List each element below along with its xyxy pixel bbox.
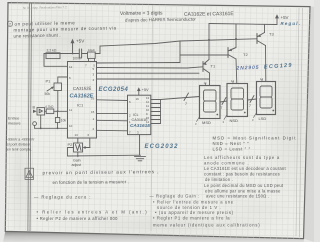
- svg-text:en tenir compte.: en tenir compte.: [7, 147, 32, 151]
- input terminal B: [33, 110, 37, 113]
- wire to pin12: [44, 54, 68, 67]
- bus slash 7: [184, 93, 189, 101]
- wire U1 pin15 to U2 pin2: [97, 113, 128, 115]
- svg-text:ICL: ICL: [133, 113, 139, 117]
- svg-text:CA3162E: CA3162E: [73, 86, 92, 91]
- svg-text:50k: 50k: [45, 92, 51, 96]
- wire chip top pin a: [88, 58, 90, 61]
- svg-text:-99mV a +999mV: -99mV a +999mV: [7, 137, 35, 141]
- ground symbol: [135, 157, 146, 161]
- wire MSD to NSD: [220, 101, 227, 102]
- wire P2 bottom: [77, 152, 79, 156]
- wire +5V collector rail (top): [209, 24, 277, 25]
- wire U1 pin2 to U2 pin7: [97, 129, 128, 132]
- wire NSD to LSD: [248, 99, 257, 100]
- wire P1 bottom to input node: [57, 91, 59, 112]
- potentiometer P2 gain: [74, 143, 91, 152]
- wire T3 collector to LSD: [265, 46, 267, 82]
- svg-text:+5V: +5V: [281, 15, 289, 20]
- svg-text:• Relier les entrees A et M (a: • Relier les entrees A et M (ant.): [37, 210, 149, 215]
- wire R3 top: [57, 111, 59, 117]
- svg-text:• Regler P2 de maniere a affic: • Regler P2 de maniere a afficher 000: [37, 216, 119, 221]
- svg-text:7: 7: [221, 106, 223, 110]
- svg-text:MSD = Most Significant Digit: MSD = Most Significant Digit: [213, 136, 297, 141]
- wire input to pin11: [45, 110, 47, 112]
- wire pin5 to T1 base: [97, 67, 203, 68]
- svg-text:Le point decimal du MSD ou LSD: Le point decimal du MSD ou LSD peut: [204, 183, 284, 188]
- display LSD pin marks: [254, 80, 263, 118]
- svg-text:4,7kΩ: 4,7kΩ: [45, 105, 54, 109]
- svg-text:— Reglage du Gain :: — Reglage du Gain :: [150, 194, 201, 199]
- node input junction: [57, 110, 59, 112]
- wire pin13 to P2: [77, 138, 79, 143]
- svg-text:2N2905: 2N2905: [235, 65, 259, 72]
- display NSD: [227, 84, 248, 117]
- svg-text:ECG2032: ECG2032: [145, 144, 179, 150]
- wire U1 pin1 to U2 pin1: [97, 119, 128, 122]
- wire chip corner to riser: [97, 62, 180, 65]
- svg-text:d'apres doc HARRIS Semiconduct: d'apres doc HARRIS Semiconductor: [125, 17, 196, 23]
- potentiometer P1 zero: [47, 83, 62, 91]
- svg-text:Entree: Entree: [8, 117, 19, 121]
- wire T1 collector to MSD: [209, 73, 211, 86]
- svg-text:MSD: MSD: [202, 120, 211, 125]
- wire chip top pin b: [94, 58, 96, 61]
- svg-text:2: 2: [9, 22, 11, 26]
- svg-text:2,2 kΩ: 2,2 kΩ: [47, 49, 57, 53]
- svg-text:LSD: LSD: [259, 116, 267, 121]
- wire rail riser: [179, 41, 181, 63]
- svg-text:10µF: 10µF: [88, 48, 95, 52]
- wire U1 pin16 to U2 pin6: [97, 99, 128, 102]
- wire T2 base: [180, 54, 228, 56]
- wire T2 collector to NSD: [235, 59, 238, 84]
- resistor R2 input: [46, 109, 54, 114]
- display LSD: [257, 82, 276, 115]
- power +5V arrow (U2 pin16): [137, 87, 141, 95]
- svg-text:P1: P1: [46, 79, 52, 84]
- svg-text:12: 12: [69, 65, 73, 69]
- svg-text:+5V: +5V: [76, 39, 85, 44]
- svg-text:mesure: mesure: [8, 122, 21, 126]
- capacitor C2 box: [88, 52, 96, 58]
- svg-text:CA3161E: CA3161E: [130, 123, 151, 128]
- wire ground run: [68, 154, 141, 157]
- svg-text:P2: P2: [68, 142, 74, 147]
- wire T3 emitter drop: [264, 24, 266, 32]
- middle list: [150, 194, 261, 228]
- transistor T3 2N2905: [257, 33, 266, 46]
- display MSD: [200, 86, 221, 119]
- power +5V arrow (top right): [275, 14, 279, 24]
- wire to T3 base rail: [100, 39, 257, 54]
- bus slash: [250, 96, 254, 103]
- svg-text:10: 10: [69, 124, 73, 128]
- svg-text:• Regler P1 de maniere a lire: • Regler P1 de maniere a lire la: [153, 215, 230, 220]
- svg-text:+5V: +5V: [142, 87, 150, 92]
- svg-text:si pont diviseur: si pont diviseur: [7, 142, 31, 146]
- wire cap to chip pins: [82, 53, 88, 55]
- svg-text:• (ou appareil de mesure preci: • (ou appareil de mesure precis): [155, 210, 234, 215]
- resistor R1 2.2k: [46, 53, 60, 59]
- node returns: [40, 127, 42, 129]
- svg-text:de limitation .: de limitation .: [205, 177, 233, 182]
- svg-text:— Reglage du zero :: — Reglage du zero :: [34, 194, 91, 199]
- wire pin7 to P2 wiper: [89, 138, 91, 148]
- display MSD pin marks: [197, 84, 206, 122]
- svg-text:10k: 10k: [61, 119, 67, 123]
- svg-text:T3: T3: [269, 31, 274, 36]
- svg-text:13: 13: [75, 133, 79, 137]
- IC U1 CA3162E: [68, 62, 97, 139]
- wire R3 bottom: [57, 123, 59, 129]
- svg-text:16: 16: [136, 97, 140, 101]
- svg-text:T2: T2: [243, 52, 248, 57]
- svg-text:NSD = Next ″ ″: NSD = Next ″ ″: [213, 141, 250, 146]
- svg-text:7: 7: [249, 104, 251, 108]
- svg-text:7: 7: [185, 102, 187, 106]
- svg-text:100nF: 100nF: [73, 56, 82, 60]
- bus slash: [222, 98, 226, 105]
- svg-text:NSD: NSD: [230, 118, 239, 123]
- wire M down: [34, 126, 36, 129]
- svg-text:adjust: adjust: [72, 163, 82, 167]
- svg-text:Voltmetre ≈ 3 digits: Voltmetre ≈ 3 digits: [120, 10, 163, 17]
- svg-text:meme valeur (identique aux cal: meme valeur (identique aux calibrations): [153, 223, 260, 228]
- transistor T2 2N2905: [228, 48, 236, 60]
- svg-text:ECG2054: ECG2054: [99, 87, 129, 93]
- wire bottom return (to pin10): [35, 127, 68, 129]
- warning triangle box: [25, 168, 34, 179]
- right notes: [204, 155, 286, 199]
- svg-text:CA3161E: CA3161E: [132, 118, 149, 122]
- note circled 2: [7, 21, 12, 26]
- svg-text:IC1: IC1: [77, 103, 84, 108]
- svg-text:T1: T1: [211, 64, 216, 69]
- wire bus to MSD: [161, 97, 200, 100]
- svg-text:Gain: Gain: [73, 159, 81, 163]
- capacitor C1 100nF: [79, 49, 81, 58]
- svg-text:Nr 03-chap. RealisationsPlan 7: Nr 03-chap. RealisationsPlan 7.2: [23, 5, 67, 10]
- right-side fold lines: [296, 8, 303, 237]
- resistor R3 shunt: [55, 118, 59, 123]
- wire U2 pin3 down: [139, 135, 141, 156]
- wire pin4 long: [97, 78, 210, 80]
- wire P1 top to pin6: [58, 77, 68, 83]
- svg-text:une resistance shunt .: une resistance shunt .: [13, 33, 60, 39]
- svg-text:LSD = Least ″ ″: LSD = Least ″ ″: [213, 146, 251, 151]
- power +5V arrow (left, above CA3162): [71, 39, 75, 54]
- wire D1 down: [40, 115, 42, 128]
- terminal M: [33, 122, 37, 126]
- svg-text:Les afficheurs sont du type a: Les afficheurs sont du type a: [204, 155, 280, 160]
- wire T2 emitter drop: [235, 24, 237, 48]
- svg-text:CA3162E: CA3162E: [70, 94, 94, 100]
- svg-text:avec une resistance de 150Ω .: avec une resistance de 150Ω .: [206, 194, 269, 199]
- svg-text:11: 11: [69, 108, 72, 112]
- wire U2 segment stubs to bus: [151, 100, 161, 124]
- wire segment bus vertical: [160, 100, 162, 124]
- wire T1 emitter drop: [208, 24, 210, 60]
- diode/protect box D1: [37, 108, 45, 115]
- transistor T1 2N2905: [203, 60, 210, 74]
- svg-text:constant : pas besoin de resis: constant : pas besoin de resistances: [204, 171, 280, 176]
- wire pin3: [97, 72, 200, 74]
- node rail crossings: [208, 39, 210, 41]
- wire P2 left leg: [68, 148, 74, 157]
- svg-text:Le CA3161E est un decodeur a c: Le CA3161E est un decodeur a courant: [204, 166, 286, 171]
- wire +5V distribution (y=53.5): [44, 53, 79, 55]
- svg-text:Regul.: Regul.: [281, 21, 302, 26]
- IC U2 CA3161E: [128, 95, 151, 134]
- display NSD pin marks: [224, 82, 233, 120]
- left margin rule: [28, 3, 32, 231]
- node P2 ground joint: [77, 155, 79, 157]
- node +5V tap: [72, 53, 74, 55]
- svg-text:anode commune .: anode commune .: [204, 160, 249, 165]
- svg-text:15: 15: [91, 110, 95, 114]
- svg-text:en fonction de la tension a me: en fonction de la tension a mesurer .: [52, 179, 129, 185]
